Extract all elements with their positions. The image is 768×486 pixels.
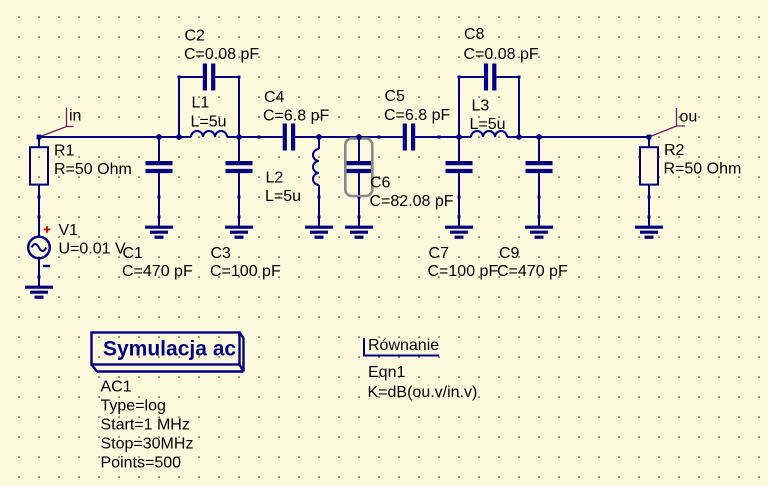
node in (junction at R1) [37,135,42,140]
node ou (junction at R2) [647,135,652,140]
wire [158,197,160,217]
svg-text:Stop=30MHz: Stop=30MHz [101,436,194,453]
junction C4/L2 [316,134,322,140]
svg-text:C=100 pF: C=100 pF [428,263,499,280]
wire [439,136,459,138]
wire [238,197,240,217]
ground [305,216,333,238]
svg-text:Start=1 MHz: Start=1 MHz [101,417,190,434]
inductor L3 [459,131,519,137]
svg-text:R2: R2 [664,142,685,159]
svg-text:C=6.8 pF: C=6.8 pF [384,107,450,124]
wire [518,77,520,137]
svg-text:L2: L2 [266,170,284,187]
capacitor C1 [146,137,173,199]
junction L1/C2/C3 right [236,134,242,140]
capacitor C3 [226,137,253,199]
resistor R1 [30,137,48,197]
svg-text:C8: C8 [464,26,485,43]
svg-text:ou: ou [680,109,698,126]
wire [648,197,650,217]
wire [38,197,40,217]
svg-text:Symulacja ac: Symulacja ac [103,338,236,361]
svg-text:K=dB(ou.v/in.v): K=dB(ou.v/in.v) [368,384,478,401]
wire [458,77,460,137]
svg-text:L3: L3 [472,98,490,115]
svg-text:AC1: AC1 [101,379,132,396]
capacitor C8 [458,64,521,91]
svg-text:Eqn1: Eqn1 [368,364,405,381]
ground [635,216,663,238]
simulation box AC1 [92,333,244,372]
capacitor C5 [378,124,441,151]
wire [239,136,259,138]
svg-text:C=82.08 pF: C=82.08 pF [370,193,454,210]
svg-text:C5: C5 [385,88,406,105]
inductor L2 [313,137,321,199]
svg-text:C=0.08 pF: C=0.08 pF [464,46,539,63]
wire [458,197,460,217]
wire [178,77,180,137]
wire [318,197,320,217]
junction L3/C8 right [516,134,522,140]
svg-text:L=5u: L=5u [470,116,506,133]
svg-text:C7: C7 [429,245,450,262]
svg-text:C=470 pF: C=470 pF [497,263,568,280]
svg-text:R1: R1 [54,143,75,160]
inductor L1 [179,131,239,137]
svg-text:C1: C1 [123,245,144,262]
capacitor C9 [526,137,553,199]
junction C5/L3/C7 [456,134,462,140]
svg-text:L1: L1 [192,95,210,112]
junction C6 [356,134,362,140]
svg-text:R=50 Ohm: R=50 Ohm [54,161,132,178]
ground [525,216,553,238]
svg-text:Points=500: Points=500 [101,455,182,472]
svg-text:C3: C3 [211,245,232,262]
wire [358,197,360,217]
svg-text:C6: C6 [370,175,391,192]
ground [225,216,253,238]
ground [445,216,473,238]
svg-text:R=50 Ohm: R=50 Ohm [664,161,742,178]
wire [538,197,540,217]
node in label hook [39,108,74,138]
capacitor C4 [258,124,320,151]
wire [319,136,379,138]
selection box C6 [345,139,372,197]
svg-text:L=5u: L=5u [265,188,301,205]
svg-text:Type=log: Type=log [101,398,166,415]
equation Eqn1 [364,338,439,356]
ground [25,277,53,297]
wire [519,136,649,138]
svg-text:in: in [69,108,81,125]
junction C1 [156,134,162,140]
junction C9 [536,134,542,140]
ground [145,216,173,238]
wire [238,77,240,137]
junction L1/C2 left [176,134,182,140]
svg-text:C=100 pF: C=100 pF [210,263,281,280]
svg-text:C4: C4 [264,89,285,106]
svg-text:C=6.8 pF: C=6.8 pF [263,108,329,125]
svg-text:L=5u: L=5u [191,114,227,131]
svg-text:V1: V1 [59,222,79,239]
capacitor C6 [346,137,373,199]
resistor R2 [640,137,658,199]
capacitor C7 [446,137,473,199]
svg-text:U=0.01 V: U=0.01 V [59,241,126,258]
capacitor C2 [178,64,241,91]
svg-text:C=0.08 pF: C=0.08 pF [184,46,259,63]
source V1 [28,196,50,279]
svg-text:Równanie: Równanie [368,337,439,354]
svg-text:C2: C2 [185,28,206,45]
svg-text:C9: C9 [499,245,520,262]
wire [39,136,179,138]
svg-text:C=470 pF: C=470 pF [122,263,193,280]
node ou label hook [649,108,685,137]
ground [345,216,373,238]
